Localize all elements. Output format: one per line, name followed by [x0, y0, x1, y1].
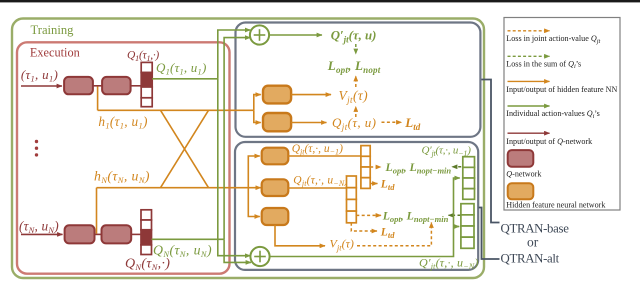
dashed arrow to Ltd base [382, 121, 402, 123]
dashed elbow col2 to Ltd row2 [351, 223, 377, 231]
alt NN box 1 output [288, 155, 361, 157]
wire Q1 to bottom sum [218, 79, 251, 256]
legend row3 orange arrow [508, 80, 550, 82]
svg-text:Ltd: Ltd [404, 115, 420, 132]
wire QN to top sum [224, 38, 250, 240]
dashed arrow col1 to Lopt row1 [370, 166, 381, 168]
alt h input tee down [248, 188, 259, 217]
wire agent-N box B to Q-column [131, 233, 141, 235]
svg-text:or: or [527, 234, 539, 249]
legend row4 green arrow [508, 105, 550, 107]
wire h1 tap down [97, 87, 99, 111]
svg-text:Vjt(τ): Vjt(τ) [339, 88, 369, 105]
wire between agent-1 boxes [93, 85, 102, 87]
svg-text:QTRAN-base: QTRAN-base [501, 221, 570, 235]
svg-text:Q1(τ1,·): Q1(τ1,·) [127, 50, 159, 64]
svg-text:Qjt(τ,·, u−1): Qjt(τ,·, u−1) [292, 143, 343, 157]
orange dashed arrow Vjt to loss [355, 76, 357, 87]
dashed Vjt feedback line [357, 223, 431, 246]
alt h input tee [248, 156, 259, 188]
svg-text:Lopt, Lnopt−min: Lopt, Lnopt−min [385, 160, 452, 176]
svg-text:Q′jt(τ,·, u−1): Q′jt(τ,·, u−1) [422, 144, 472, 158]
svg-text:h1(τ1, u1): h1(τ1, u1) [98, 114, 148, 131]
alt NN box 2 [262, 179, 289, 196]
alt NN box 2 output [288, 187, 346, 189]
wire Q1 to top sum [218, 30, 251, 79]
green dashed arrow to Lopt row1 [452, 166, 461, 168]
svg-text:Q-network: Q-network [506, 169, 542, 178]
alt NN box 3 [262, 208, 289, 225]
legend box [504, 18, 620, 211]
top rule [0, 0, 640, 2]
wire QN output [152, 238, 225, 240]
crossing diagonal hN to base [161, 110, 209, 187]
bottom sum output wire [270, 178, 460, 257]
Execution box [17, 42, 230, 273]
agent-1 Q-network box B [102, 77, 131, 94]
svg-text:Q′jt(τ,·, u−N): Q′jt(τ,·, u−N) [419, 256, 479, 272]
orange column u-1 [361, 146, 370, 189]
Training box [12, 19, 484, 279]
branch arrow into green col2 [454, 226, 460, 228]
base NN box top output arrow [291, 94, 331, 96]
h input tee in base box [254, 95, 261, 111]
wire h1 horizontal [98, 109, 254, 111]
crossing diagonal h1 to alt [161, 110, 209, 187]
svg-text:QTRAN-alt: QTRAN-alt [501, 251, 560, 265]
svg-text:Hidden feature neural network: Hidden feature neural network [506, 201, 606, 210]
bottom sum node [250, 247, 269, 266]
dashed arrow col2 to Lopt row2 [356, 214, 381, 216]
svg-text:Lopt, Lnopt: Lopt, Lnopt [327, 58, 381, 75]
agent-1 input arrow [21, 85, 62, 87]
legend Q-network swatch [508, 150, 534, 167]
QTRAN-base bracket [482, 80, 500, 223]
legend hidden NN swatch [508, 183, 534, 199]
agent-N input arrow [21, 233, 63, 235]
base NN box top [263, 86, 291, 104]
svg-text:Input/output of hidden feature: Input/output of hidden feature NN [506, 85, 617, 94]
svg-text:Qjt(τ, u): Qjt(τ, u) [332, 115, 376, 132]
wire QN to bottom sum [224, 239, 251, 262]
green column u-N [461, 204, 474, 249]
svg-text:Qjt(τ,·, u−N): Qjt(τ,·, u−N) [293, 175, 348, 189]
svg-text:Q1(τ1, u1): Q1(τ1, u1) [156, 60, 206, 77]
wire Q1 output [152, 78, 218, 80]
green column u-1 [463, 157, 475, 200]
svg-text:hN(τN, uN): hN(τN, uN) [94, 169, 150, 186]
agent-N Q-value column [141, 210, 152, 255]
dashed arrow col1 to Ltd row1 [370, 183, 377, 185]
green dashed loss arrow down [355, 44, 357, 54]
svg-text:(τN, uN): (τN, uN) [19, 219, 59, 236]
wire agent-1 box B to Q-column [131, 85, 142, 87]
alt NN box 3 output to Vjt [275, 225, 325, 246]
svg-text:Vjt(τ): Vjt(τ) [330, 237, 354, 253]
legend row2 dashed green arrow [508, 55, 550, 57]
svg-text:Ltd: Ltd [380, 179, 395, 193]
agent-N Q-network box A [65, 225, 95, 243]
agent-N Q-network box B [102, 225, 132, 243]
agent-1 Q-network box A [64, 77, 93, 94]
svg-text:Training: Training [31, 23, 75, 37]
svg-text:Lopt, Lnopt−min: Lopt, Lnopt−min [382, 208, 449, 224]
legend row5 dark red arrow [508, 132, 550, 134]
svg-text:(τ1, u1): (τ1, u1) [21, 67, 58, 84]
orange dashed arrow Qjt to Vjt [355, 107, 357, 118]
svg-text:Input/output of Q-network: Input/output of Q-network [506, 137, 593, 146]
alt NN box 1 [262, 148, 289, 165]
QTRAN-base gray box [236, 23, 481, 137]
h input tee down in base box [254, 110, 261, 122]
svg-text:QN(τN,·): QN(τN,·) [125, 257, 170, 273]
svg-text:Ltd: Ltd [380, 227, 395, 241]
vertical dots [35, 140, 38, 157]
top sum node [250, 25, 269, 44]
agent-1 Q-value column [141, 62, 152, 106]
top sum output arrow [269, 34, 322, 36]
base NN box bottom [263, 113, 291, 131]
orange column u-N [347, 176, 357, 223]
wire between agent-N boxes [95, 233, 102, 235]
QTRAN-alt bracket [479, 208, 500, 260]
wire hN tap up [96, 188, 98, 234]
legend row1 dashed orange arrow [508, 30, 550, 32]
green dashed arrow to Lopt row2 [449, 214, 461, 216]
svg-text:Q′jt(τ, u): Q′jt(τ, u) [331, 29, 377, 45]
QTRAN-alt gray box [235, 142, 478, 270]
svg-text:Execution: Execution [30, 45, 80, 59]
base NN box bottom output arrow [291, 122, 326, 124]
wire hN horizontal [97, 187, 261, 189]
